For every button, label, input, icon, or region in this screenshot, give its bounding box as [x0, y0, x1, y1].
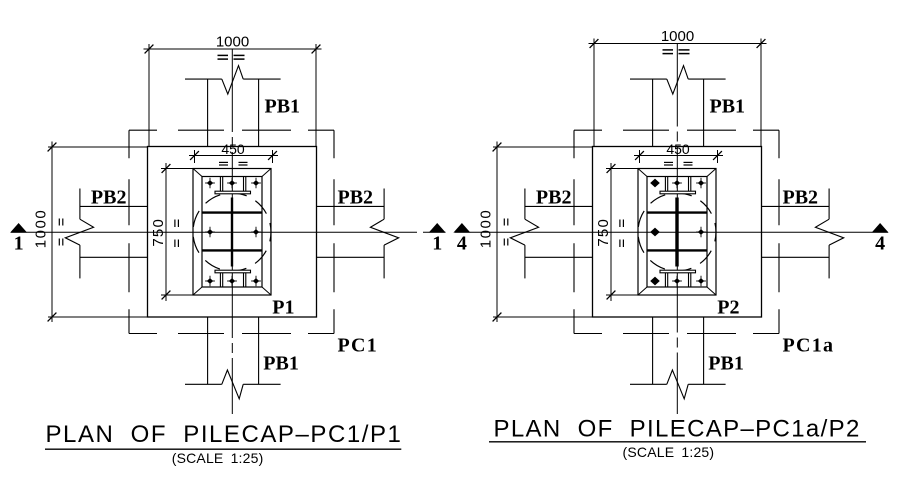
bottom bracket verticals: [219, 273, 221, 287]
pile circle (dashed): [638, 193, 716, 271]
svg-text:PB1: PB1: [263, 353, 299, 375]
beam PB1 (bottom) break line: [630, 383, 667, 385]
pilecap edge outer rectangle: [193, 169, 271, 296]
beam PB1 (top) break line: [185, 78, 222, 80]
column web bar: [231, 198, 233, 267]
svg-text:4: 4: [457, 232, 467, 254]
beam PB2 (right) edges: [762, 205, 830, 207]
pilecap edge outer rectangle: [638, 169, 716, 296]
top bracket plate: [660, 191, 696, 194]
equal marks (450): [664, 161, 673, 163]
svg-text:1: 1: [14, 232, 24, 254]
dimension 750: [161, 168, 193, 170]
rebar marker (256,232): [698, 229, 704, 235]
beam PB1 (top) edges: [207, 79, 209, 146]
section marker 4: [453, 223, 470, 233]
dimension 750: [606, 168, 638, 170]
section line 4-4: [455, 231, 888, 233]
svg-text:1000: 1000: [478, 209, 495, 248]
beam PB2 (right) break line: [828, 189, 830, 220]
svg-text:4: 4: [875, 232, 885, 254]
hidden outline PC1 (dashed rectangle): [129, 129, 334, 131]
svg-text:750: 750: [595, 218, 612, 247]
beam PB1 (bottom) edges: [652, 317, 654, 384]
beam PB2 (left) break line: [79, 189, 81, 220]
rebar marker (256,183): [253, 180, 259, 186]
svg-text:(SCALE 1:25): (SCALE 1:25): [172, 450, 264, 466]
beam PB1 (bottom) break line: [185, 383, 222, 385]
bottom bracket verticals: [664, 273, 666, 287]
bottom bracket plate: [660, 270, 696, 273]
svg-text:PLAN OF PILECAP–PC1/P1: PLAN OF PILECAP–PC1/P1: [46, 421, 403, 448]
dimension 1000 (left): [493, 146, 593, 148]
bottom bracket plate: [215, 270, 251, 273]
svg-text:P1: P1: [272, 297, 294, 319]
svg-text:PB1: PB1: [265, 96, 301, 118]
beam PB2 (right) edges: [317, 205, 385, 207]
beam PB2 (left) edges: [525, 205, 593, 207]
rebar marker (256,232): [253, 229, 259, 235]
pilecap edge inner rectangle: [647, 177, 707, 288]
beam PB2 (left) break line: [524, 189, 526, 220]
dimension 450: [194, 150, 196, 163]
rebar marker (232,281): [229, 278, 235, 284]
stiffener bar lower: [202, 249, 262, 251]
section line 1-1: [11, 231, 446, 233]
top bracket verticals: [664, 177, 666, 192]
section marker 4: [872, 223, 889, 233]
svg-text:PB2: PB2: [338, 187, 374, 209]
rebar marker (210,232): [207, 229, 213, 235]
svg-text:PB2: PB2: [91, 187, 127, 209]
pilecap edge inner rectangle: [202, 177, 262, 288]
chamfer corner diagonals: [193, 169, 202, 177]
rebar marker (210,232): [650, 228, 660, 237]
svg-text:PB2: PB2: [536, 187, 572, 209]
dimension 1000 (top): [593, 39, 595, 147]
beam PB1 (top) break line: [630, 78, 667, 80]
beam PB2 (left) edges: [80, 205, 148, 207]
rebar marker (256,281): [253, 278, 259, 284]
stiffener bar upper: [202, 211, 262, 213]
dimension 450: [639, 150, 641, 163]
title right underline: [489, 441, 866, 443]
dimension 1000 (left): [48, 146, 148, 148]
beam PB1 (bottom) edges: [207, 317, 209, 384]
svg-text:PC1a: PC1a: [783, 335, 835, 357]
rebar marker (210,281): [207, 278, 213, 284]
svg-text:PB1: PB1: [708, 353, 744, 375]
pile cap square P1 outline: [148, 147, 317, 318]
pile circle (dashed): [193, 193, 271, 271]
svg-text:450: 450: [666, 141, 690, 157]
equal marks (left): [503, 219, 505, 226]
equal marks (left): [58, 219, 60, 226]
svg-text:PB2: PB2: [783, 187, 819, 209]
top bracket plate: [215, 191, 251, 194]
beam PB2 (right) break line: [383, 189, 385, 220]
stiffener bar upper: [647, 211, 707, 213]
top bracket verticals: [219, 177, 221, 192]
title left underline: [45, 448, 401, 450]
svg-text:750: 750: [150, 218, 167, 247]
beam PB1 (top) edges: [652, 79, 654, 146]
svg-text:PLAN OF PILECAP–PC1a/P2: PLAN OF PILECAP–PC1a/P2: [494, 415, 861, 442]
rebar marker (256,183): [698, 180, 704, 186]
hidden outline PC1a (dashed rectangle): [574, 129, 779, 131]
stiffener bar lower: [647, 249, 707, 251]
chamfer corner diagonals: [638, 169, 647, 177]
svg-text:PB1: PB1: [710, 96, 746, 118]
equal marks (750): [174, 220, 176, 228]
rebar marker (210,183): [650, 179, 660, 188]
equal marks (750): [619, 220, 621, 228]
rebar marker (210,183): [207, 180, 213, 186]
dimension 1000 (top): [148, 44, 150, 147]
rebar marker (232,183): [674, 180, 680, 186]
svg-text:1: 1: [432, 232, 442, 254]
svg-text:450: 450: [221, 141, 245, 157]
section marker 1: [429, 223, 446, 233]
equal marks (top): [663, 49, 674, 51]
equal marks (top): [218, 54, 229, 56]
svg-text:1000: 1000: [33, 209, 50, 248]
svg-text:1000: 1000: [216, 33, 249, 50]
pile cap square P2 outline: [593, 147, 762, 318]
vertical centerline: [231, 49, 233, 414]
svg-text:(SCALE 1:25): (SCALE 1:25): [623, 444, 715, 460]
rebar marker (232,281): [674, 278, 680, 284]
rebar marker (210,281): [650, 277, 660, 286]
rebar marker (256,281): [698, 278, 704, 284]
section marker 1: [10, 223, 27, 233]
column web bar: [675, 198, 678, 267]
svg-text:1000: 1000: [661, 28, 694, 45]
rebar marker (232,183): [229, 180, 235, 186]
svg-text:PC1: PC1: [338, 335, 379, 357]
equal marks (450): [219, 161, 228, 163]
vertical centerline: [676, 44, 678, 415]
svg-text:P2: P2: [717, 297, 739, 319]
